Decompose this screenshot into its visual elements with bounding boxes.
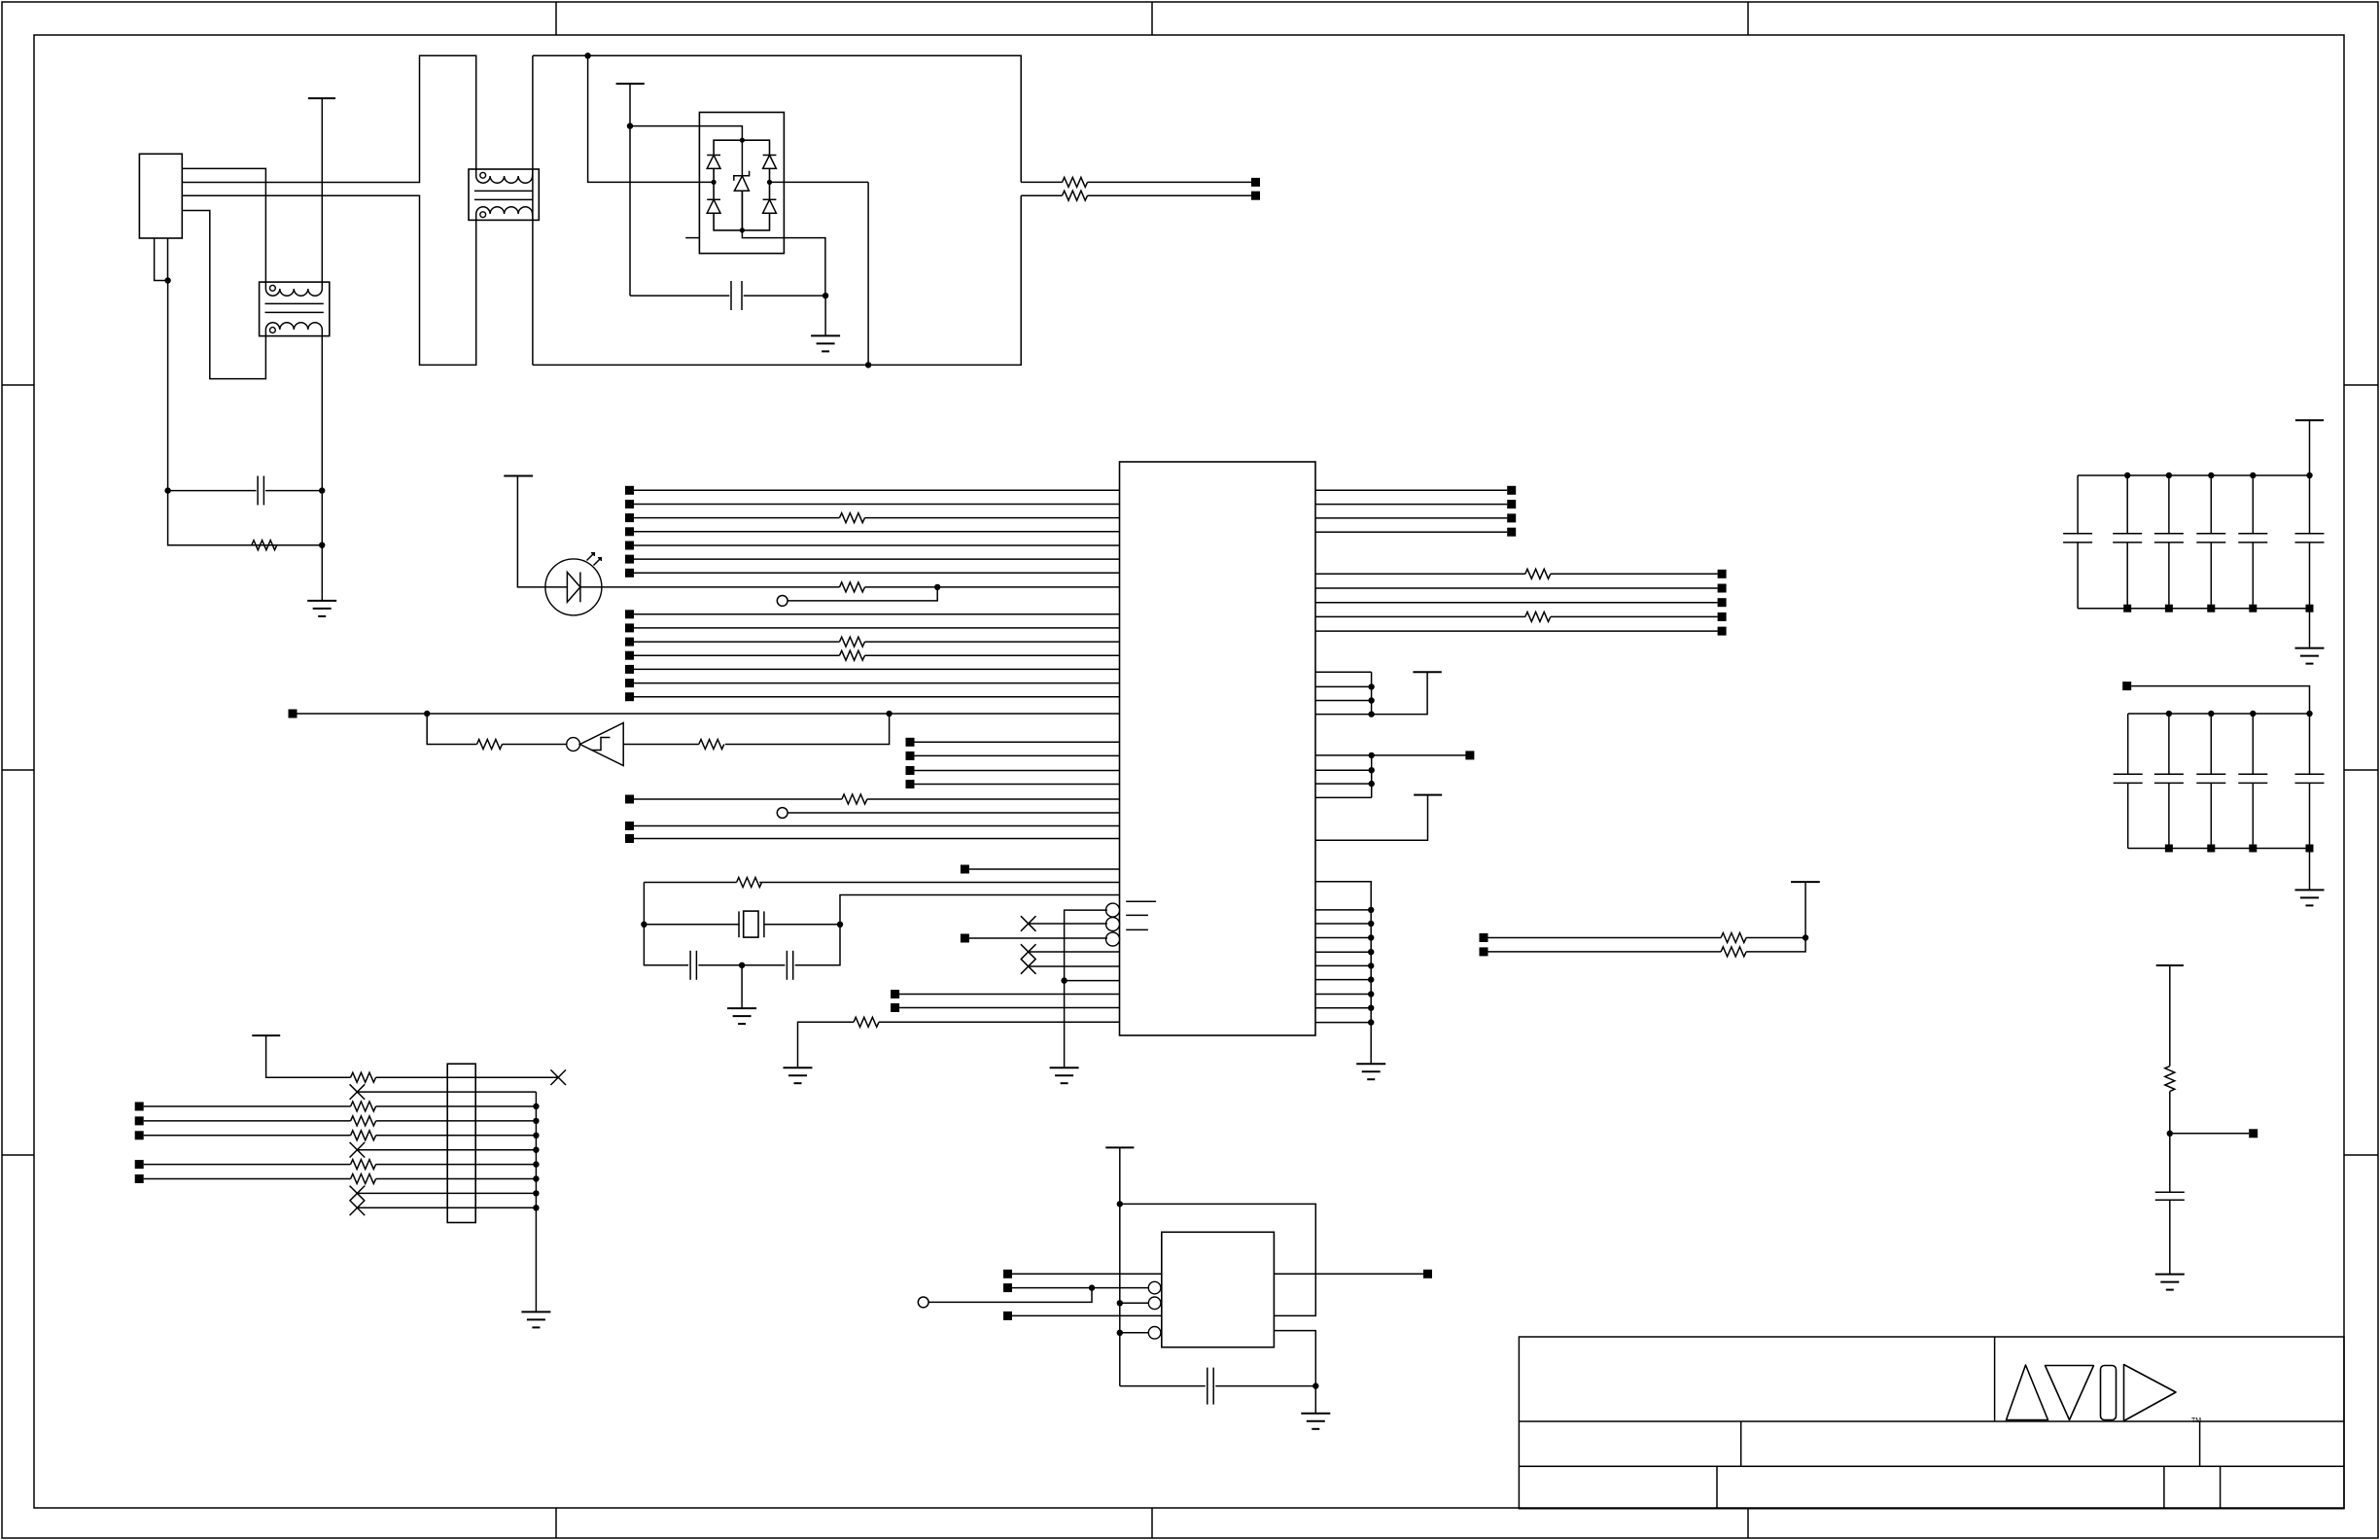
junction dot U2 b [1089, 1284, 1095, 1290]
open circle pin M6 [777, 808, 787, 819]
IC U2 body [1162, 1232, 1275, 1347]
wire P9 stem [2309, 420, 2311, 534]
capacitor C18 [2196, 714, 2225, 849]
wire R-G3 [1315, 602, 1718, 604]
ground G2 [784, 1067, 813, 1083]
junction dot group2 a [1369, 752, 1375, 758]
wire pin10 [357, 1207, 536, 1208]
capacitor C2 [731, 281, 742, 310]
terminal L5 [625, 542, 634, 550]
terminal L13 [625, 665, 634, 674]
resistor pack RP1 body [447, 1064, 475, 1222]
no-connect X5 [350, 1084, 366, 1100]
resistor R3 [1063, 177, 1088, 187]
wire C2 net [630, 295, 729, 297]
enclosure bottom edge wire [533, 195, 1021, 365]
terminal M3 [906, 766, 915, 775]
wire crystal top net [759, 882, 1119, 884]
capacitor C15 [2295, 534, 2325, 648]
wire P2 to bridge top [630, 126, 742, 141]
terminal V+ out [1251, 178, 1260, 187]
wire choke T1 to ground node [321, 336, 323, 601]
title block outline [1519, 1337, 2344, 1509]
wire L3 [634, 517, 840, 519]
terminal M4 [906, 780, 915, 788]
resistor R11 [842, 794, 867, 804]
wire enclosure output V+ [1021, 181, 1062, 183]
wire C4 to crystal right [795, 925, 840, 965]
terminal R7 [1718, 598, 1727, 607]
junction dot crystal ground [739, 962, 745, 968]
title block row3 divider b [2163, 1466, 2165, 1508]
junction square C12 bottom [2165, 605, 2173, 612]
capacitor C1 [258, 476, 263, 506]
capacitor C4 [787, 951, 792, 980]
junction dot bus7 [533, 1161, 539, 1167]
terminal L10 [625, 623, 634, 632]
IC interior mark 3 [1126, 928, 1148, 930]
wire pin9 [357, 1192, 536, 1194]
junction dot LED net [934, 584, 940, 590]
wire C3 to ground node [698, 964, 785, 966]
wire bridge AC input left [588, 55, 715, 182]
junction square C15 bottom [2306, 605, 2314, 612]
wire bridge right return [867, 182, 869, 365]
terminal S1 [1480, 933, 1488, 942]
wire U2 pin d [1012, 1314, 1162, 1316]
terminal N4 [135, 1160, 144, 1169]
resistor R6 [840, 582, 865, 592]
wire RN1 to X end [376, 1076, 559, 1078]
wire rgb pin 5 [1315, 964, 1371, 966]
wire P7 stem [266, 1035, 351, 1077]
wire M3 [915, 770, 1120, 772]
resistor R8 [840, 650, 865, 660]
wire L10 [634, 627, 1120, 629]
wire P6 to U2 right top pin [1120, 1204, 1316, 1315]
wire M7 [634, 825, 1120, 827]
title block row divider 2 [1519, 1465, 2344, 1467]
terminal R5 [1718, 570, 1727, 578]
border zone tick right 3 [2344, 1154, 2378, 1156]
wire supply group pin b [1315, 685, 1372, 687]
wire right ground bus top [1315, 882, 1371, 1064]
bridge BR1 stub pin [685, 237, 699, 239]
terminal L7 [625, 569, 634, 577]
bridge rectifier BR1 outer box [699, 113, 784, 254]
junction dot supply d [1368, 711, 1374, 717]
resistor R9 [477, 740, 503, 750]
junction dot bridge bottom node [740, 227, 745, 232]
wire supply group pin a [1315, 671, 1372, 673]
wire M9 [969, 868, 1120, 870]
terminal L6 [625, 555, 634, 564]
junction dot crystal right [837, 922, 843, 927]
title block row3 divider a [1716, 1466, 1718, 1508]
wire L1 [634, 489, 1120, 491]
resistor R18 [2165, 1067, 2175, 1092]
wire capacitor C1 net [168, 490, 257, 492]
wire sense pair b [1488, 951, 1722, 953]
junction dot group2 c [1369, 781, 1375, 787]
wire supply group pin c [1315, 700, 1372, 702]
wire pin5 [144, 1135, 351, 1137]
wire shield node down [168, 281, 323, 545]
border zone tick left 3 [2, 1154, 34, 1156]
resistor R12 [737, 878, 762, 888]
ground G6 [1356, 1064, 1385, 1079]
wire rgb pin 8 [1315, 1007, 1371, 1009]
diode D3 [763, 156, 777, 169]
title block row2 divider a [1740, 1421, 1742, 1466]
capacitor C3 [690, 951, 696, 980]
enclosure left edge wire [532, 55, 534, 365]
terminal M8 [625, 834, 634, 843]
no-connect X2 [1021, 944, 1036, 960]
power rail P6 [1105, 1146, 1134, 1148]
junction dot crystal left [641, 922, 647, 927]
wire L15 [634, 696, 1120, 698]
wire reset line [297, 713, 1120, 715]
power rail P1 [308, 97, 335, 99]
junction dot rgb9 [1368, 1019, 1374, 1025]
terminal M7 [625, 822, 634, 830]
wire LED net branch [787, 587, 937, 601]
terminal V- out [1251, 192, 1260, 200]
junction dot bus8 [533, 1175, 539, 1181]
junction dot R2 right [319, 542, 325, 548]
ground G5 [1301, 1414, 1330, 1429]
ground G1 [307, 601, 336, 616]
no-connect X8 [350, 1201, 366, 1216]
junction dot rgb1 [1368, 907, 1374, 913]
junction dot bus5 [533, 1133, 539, 1138]
border zone tick left 1 [2, 384, 34, 386]
terminal N2 [135, 1116, 144, 1125]
resistor RN3 [351, 1116, 376, 1126]
junction dot bridge right mid node [767, 180, 772, 185]
wire P8 stem [1804, 882, 1806, 937]
terminal R9 [1718, 627, 1727, 636]
choke T2 body [469, 169, 539, 220]
power rail P7 [252, 1034, 280, 1036]
junction dot C1 right [319, 487, 325, 493]
terminal U2-3 [1003, 1312, 1012, 1320]
wire pin4 [144, 1120, 351, 1122]
wire C22 net [1120, 1385, 1206, 1387]
bridge BR1 center leg [741, 140, 743, 230]
open circle pin [777, 596, 787, 607]
junction dot C17 top [2166, 711, 2172, 717]
wire R-G4 [1315, 615, 1525, 617]
junction dot C1 left [164, 487, 170, 493]
junction dot C14 top [2250, 472, 2256, 478]
terminal L9 [625, 610, 634, 618]
junction dot C11 top [2124, 472, 2130, 478]
junction dot rgb6 [1368, 976, 1374, 982]
no-connect X6 [350, 1142, 366, 1158]
IC bubble pin 3 [1106, 932, 1120, 946]
wire group2 pin a [1315, 754, 1474, 756]
power rail P10 [2156, 964, 2184, 966]
junction dot rgb8 [1368, 1005, 1374, 1011]
wire X3 to IC [1029, 965, 1120, 967]
terminal R6 [1718, 584, 1727, 593]
junction dot supply b [1368, 683, 1374, 689]
wire bus to IC pin [1065, 980, 1120, 982]
wire R10 to schmitt [623, 744, 699, 746]
AVID logo triangle down [2046, 1366, 2094, 1420]
wire pin2 [357, 1091, 536, 1093]
resistor RN1 [351, 1072, 376, 1082]
wire crystal left leg [644, 883, 688, 965]
capacitor C21 [2155, 1192, 2185, 1274]
title block row3 divider c [2220, 1466, 2222, 1508]
terminal N1 [135, 1102, 144, 1111]
junction dot bank1 rail [2306, 472, 2312, 478]
resistor R15 [1525, 612, 1551, 621]
terminal U2-1 [1003, 1270, 1012, 1278]
wire pin7 [144, 1164, 351, 1166]
ground G9 [2295, 890, 2325, 905]
resistor R14 [1525, 569, 1551, 578]
junction square C13 bottom [2207, 605, 2215, 612]
wire P1 stem to choke T1 [321, 98, 323, 282]
wire M5 [634, 798, 842, 800]
terminal R10 [1465, 751, 1474, 759]
ground G8 [2295, 648, 2325, 664]
wire rgb pin 3 [1315, 937, 1371, 939]
wire open circle to node [928, 1288, 1092, 1303]
junction dot bus4 [533, 1118, 539, 1124]
wire group2 bus [1371, 755, 1373, 798]
terminal M2 [906, 752, 915, 760]
resistor R16 [1721, 933, 1746, 943]
wire L13 [634, 668, 1120, 670]
wire rgb pin 2 [1315, 923, 1371, 925]
wire P2 stem [629, 84, 631, 296]
wire R-L3 [1315, 517, 1507, 519]
wire L4 [634, 531, 1120, 533]
junction square C11 bottom [2123, 605, 2131, 612]
wire R-L1 [1315, 489, 1507, 491]
wire rgb pin 4 [1315, 951, 1371, 953]
capacitor C13 [2196, 475, 2225, 609]
wire M2 [915, 754, 1120, 756]
wire U2 pin b [1012, 1287, 1148, 1289]
title block row divider 1 [1519, 1420, 2344, 1422]
terminal reset in [289, 710, 297, 718]
junction dot bus9 [533, 1190, 539, 1196]
wire LED to IC [602, 586, 840, 588]
open circle input [918, 1297, 928, 1308]
wire R13 to IC [879, 1021, 1120, 1023]
terminal R2 [1507, 500, 1516, 508]
terminal L4 [625, 527, 634, 536]
title block row2 divider b [2199, 1421, 2201, 1466]
junction dot rgb7 [1368, 991, 1374, 997]
wire L11 [634, 641, 840, 643]
wire L5 [634, 544, 1120, 546]
junction square C14 bottom [2249, 605, 2257, 612]
bridge BR1 inner ring [714, 140, 769, 230]
terminal R3 [1507, 513, 1516, 522]
connector J1 body [139, 154, 182, 238]
junction dot rgb4 [1368, 949, 1374, 955]
junction dot C18 top [2208, 711, 2214, 717]
resistor RN2 [351, 1102, 376, 1111]
wire group2 pin d [1315, 796, 1372, 798]
IC U1 body [1120, 462, 1316, 1035]
border zone tick right 1 [2344, 384, 2378, 386]
terminal M11 [891, 990, 899, 998]
junction dot rgb5 [1368, 962, 1374, 968]
ground G7 [727, 1008, 756, 1024]
junction dot C2 right [822, 293, 828, 298]
junction dot P2 branch [627, 122, 633, 128]
wire R-L2 [1315, 504, 1507, 506]
terminal M10 [961, 934, 969, 943]
junction dot rgb2 [1368, 921, 1374, 927]
terminal L11 [625, 638, 634, 647]
LED DS1 [545, 553, 602, 615]
capacitor C10 [2063, 475, 2092, 609]
wire U2 pin c [1120, 1302, 1149, 1304]
wire R-G2 [1315, 587, 1718, 589]
no-connect X3 [1021, 959, 1036, 974]
wire L9 [634, 613, 1120, 615]
wire bus network [535, 1092, 537, 1312]
terminal L1 [625, 486, 634, 495]
diode D1 [707, 156, 720, 169]
border zone tick bottom 1 [555, 1508, 557, 1538]
IC U2 bubble c [1148, 1297, 1161, 1310]
IC bubble pin 1 [1106, 903, 1120, 917]
terminal U2-2 [1003, 1283, 1012, 1292]
wire M8 [634, 838, 1120, 840]
capacitor C22 [1207, 1368, 1213, 1405]
wire M6 [787, 812, 1119, 814]
wire U2 pin a [1012, 1273, 1162, 1275]
power rail P3 [504, 475, 533, 477]
resistor R2 [252, 541, 277, 550]
wire M11 [899, 994, 1119, 996]
wire M12 [899, 1007, 1119, 1009]
wire M4 [915, 784, 1120, 786]
wire RC node to terminal [2170, 1133, 2249, 1135]
junction dot bridge left mid node [712, 180, 717, 185]
capacitor C16 [2114, 714, 2143, 849]
IC U2 bubble b [1148, 1281, 1161, 1294]
capacitor C17 [2154, 714, 2184, 849]
wire rgb pin 7 [1315, 994, 1371, 996]
ground G10 [2155, 1275, 2185, 1290]
junction dot sense [1802, 934, 1808, 940]
wire U2 right lower pin to ground node [1274, 1331, 1315, 1414]
enclosure wire loop top [533, 55, 1021, 182]
wire enclosure output V- [1021, 194, 1062, 196]
power rail P9 [2295, 419, 2324, 421]
connector J1 shield tab pin a [155, 238, 168, 281]
junction dot bridge top node [740, 138, 745, 143]
wire bridge dc minus [742, 230, 825, 296]
wire pulldown net [798, 1022, 855, 1067]
wire X2 to IC [1029, 951, 1120, 953]
wire R-G1 [1315, 573, 1525, 575]
choke T1 body [260, 282, 330, 336]
terminal M9 [961, 865, 969, 874]
diode D4 [763, 199, 777, 213]
junction dot enclosure top [584, 52, 590, 58]
IC interior mark 2 [1126, 914, 1148, 916]
terminal RC out [2249, 1129, 2257, 1137]
power rail P8 [1791, 881, 1820, 883]
schmitt inverter U3 [567, 723, 624, 766]
wire M10 to bubble3 [969, 937, 1107, 939]
terminal R1 [1507, 486, 1516, 495]
border zone tick top 2 [1151, 2, 1153, 35]
wire U2 output [1274, 1273, 1423, 1275]
wire L7 [634, 572, 1120, 574]
terminal N5 [135, 1174, 144, 1183]
junction dot U2 ground node [1312, 1382, 1318, 1388]
terminal L15 [625, 692, 634, 701]
resistor R5 [840, 513, 865, 523]
wire rgb pin 9 [1315, 1022, 1371, 1024]
wire rgb pin 6 [1315, 979, 1371, 981]
ground G4 [1050, 1067, 1079, 1083]
junction dot bus3 [533, 1103, 539, 1109]
junction square C18 bottom [2207, 845, 2215, 853]
junction dot shield node [164, 277, 170, 283]
wire R-L4 [1315, 531, 1507, 533]
resistor R13 [854, 1017, 879, 1027]
wire R-G5 [1315, 630, 1718, 632]
junction dot reset a [424, 711, 430, 717]
wire ground stem crystal [741, 965, 743, 1008]
junction square C20 bottom [2306, 845, 2314, 853]
AVID logo triangle right [2124, 1365, 2177, 1421]
wire bank1 bottom rail [2078, 608, 2309, 610]
no-connect X7 [350, 1186, 366, 1202]
wire group2 pin c [1315, 783, 1372, 785]
wire R9 to schmitt bubble [503, 744, 567, 746]
wire U2 pin e [1120, 1332, 1149, 1334]
capacitor C19 [2238, 714, 2267, 849]
junction dot bus6 [533, 1147, 539, 1153]
resistor R4 [1063, 191, 1088, 200]
terminal S2 [1480, 947, 1488, 956]
title block row1 divider [1994, 1337, 1996, 1421]
wire X1 to bubble2 [1029, 923, 1107, 925]
ground G11 [521, 1312, 550, 1327]
junction square C17 bottom [2165, 845, 2173, 853]
terminal M12 [891, 1003, 899, 1012]
wire P3 to LED [517, 476, 545, 587]
capacitor C20 [2295, 774, 2325, 890]
wire rgb pin 1 [1315, 909, 1371, 911]
terminal bank2 supply [2122, 682, 2131, 690]
wire schmitt input branch [725, 714, 890, 745]
resistor R7 [840, 637, 865, 647]
wire pin6 [357, 1149, 536, 1151]
wire bank1 top rail [2078, 474, 2309, 476]
wire J1 pin2 (line N) [182, 55, 475, 182]
junction dot P6 top [1117, 1201, 1123, 1207]
wire sense pair a [1488, 937, 1722, 939]
terminal R8 [1718, 612, 1727, 621]
wire bank2 top rail [2128, 713, 2310, 715]
